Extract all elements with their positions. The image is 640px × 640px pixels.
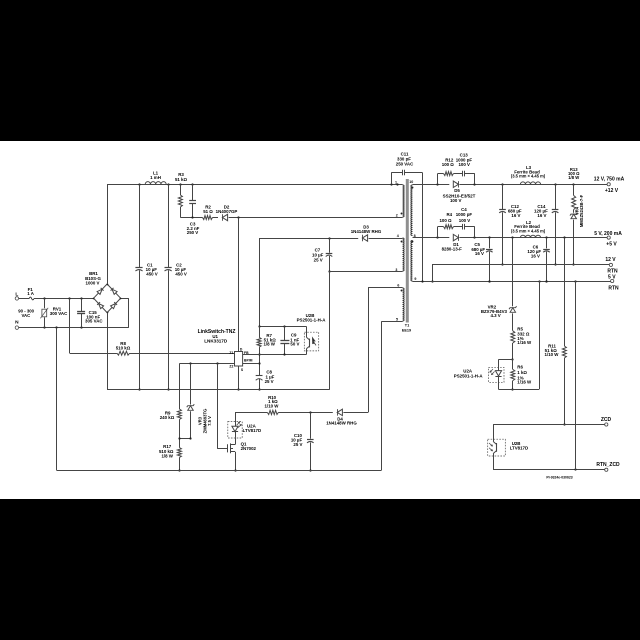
svg-text:51 kΩ: 51 kΩ (175, 177, 188, 182)
svg-text:250 V: 250 V (187, 230, 199, 235)
svg-text:R6: R6 (517, 364, 523, 369)
svg-text:ZCD: ZCD (601, 417, 612, 423)
svg-text:PS2501-1-H-A: PS2501-1-H-A (454, 374, 484, 379)
svg-text:100 Ω: 100 Ω (439, 218, 452, 223)
svg-text:VAC: VAC (22, 313, 31, 318)
svg-text:RTN: RTN (608, 286, 619, 292)
svg-text:16 V: 16 V (511, 213, 520, 218)
svg-text:100 V: 100 V (459, 218, 471, 223)
svg-text:510 kΩ: 510 kΩ (116, 346, 131, 351)
svg-text:3: 3 (395, 268, 397, 272)
svg-text:RTN: RTN (607, 268, 618, 274)
svg-text:8280-13-F: 8280-13-F (442, 246, 463, 251)
svg-text:N: N (15, 320, 19, 326)
svg-text:1 mH: 1 mH (150, 175, 161, 180)
svg-text:1000 V: 1000 V (86, 280, 100, 285)
svg-text:(3.5 mm × 4.45 m): (3.5 mm × 4.45 m) (511, 174, 546, 179)
svg-text:300 VAC: 300 VAC (50, 311, 68, 316)
svg-text:12 V, 750 mA: 12 V, 750 mA (594, 176, 625, 182)
svg-text:1/8 W: 1/8 W (161, 453, 173, 458)
svg-text:PS2501-1-H-A: PS2501-1-H-A (297, 317, 327, 322)
svg-text:1/10 W: 1/10 W (545, 352, 560, 357)
svg-text:1000 pF: 1000 pF (456, 212, 473, 217)
svg-text:4.3 V: 4.3 V (490, 313, 500, 318)
svg-text:1/16 W: 1/16 W (517, 379, 532, 384)
svg-text:Z2: Z2 (229, 364, 233, 368)
svg-text:5: 5 (396, 318, 398, 322)
svg-text:5 V, 200 mA: 5 V, 200 mA (594, 231, 622, 237)
svg-text:25 V: 25 V (293, 442, 302, 447)
svg-text:16 V: 16 V (475, 251, 484, 256)
svg-text:+12 V: +12 V (605, 188, 619, 194)
svg-text:5 V: 5 V (608, 274, 616, 280)
svg-text:RTN_ZCD: RTN_ZCD (596, 462, 620, 468)
svg-text:LTV817D: LTV817D (510, 446, 528, 451)
svg-text:100 V: 100 V (458, 162, 470, 167)
svg-text:(3.5 mm × 4.45 m): (3.5 mm × 4.45 m) (511, 228, 546, 233)
svg-text:1N4148W RHG: 1N4148W RHG (351, 229, 382, 234)
svg-text:1N4148W RHG: 1N4148W RHG (326, 421, 357, 426)
svg-text:450 V: 450 V (175, 272, 187, 277)
svg-text:4: 4 (397, 234, 399, 238)
svg-text:100 Ω: 100 Ω (442, 162, 455, 167)
svg-text:16 V: 16 V (537, 213, 546, 218)
svg-text:D5: D5 (454, 188, 460, 193)
svg-text:1/8 W: 1/8 W (263, 342, 275, 347)
svg-text:PI-9324e-030623: PI-9324e-030623 (546, 475, 572, 479)
svg-text:51 Ω: 51 Ω (203, 209, 213, 214)
svg-text:240 kΩ: 240 kΩ (160, 415, 175, 420)
svg-text:MMSZ5243B-7-F: MMSZ5243B-7-F (579, 194, 584, 227)
svg-text:+5 V: +5 V (606, 241, 617, 247)
svg-text:450 V: 450 V (146, 272, 158, 277)
svg-text:1/16 W: 1/16 W (517, 340, 532, 345)
svg-text:LTV817D: LTV817D (243, 428, 261, 433)
svg-text:25 V: 25 V (314, 257, 323, 262)
svg-text:100 V: 100 V (450, 198, 462, 203)
svg-text:6: 6 (397, 284, 399, 288)
svg-text:1/10 W: 1/10 W (265, 404, 280, 409)
svg-text:12 V: 12 V (605, 257, 616, 263)
svg-text:1N4007GP: 1N4007GP (216, 209, 238, 214)
svg-text:50 V: 50 V (290, 342, 299, 347)
svg-text:1: 1 (395, 180, 397, 184)
svg-text:16 V: 16 V (531, 253, 540, 258)
svg-text:25 V: 25 V (265, 379, 274, 384)
svg-text:2: 2 (396, 214, 398, 218)
svg-text:1 kΩ: 1 kΩ (517, 370, 527, 375)
svg-text:Z1: Z1 (229, 351, 233, 355)
svg-text:2N7002: 2N7002 (241, 446, 257, 451)
svg-text:305 VAC: 305 VAC (85, 319, 103, 324)
svg-text:1 A: 1 A (27, 291, 34, 296)
svg-text:L: L (15, 291, 18, 297)
svg-text:R4: R4 (446, 212, 452, 217)
svg-text:T1: T1 (405, 324, 409, 328)
svg-text:7.5 V: 7.5 V (207, 416, 212, 426)
svg-text:BP/M: BP/M (244, 358, 253, 362)
svg-text:EE19: EE19 (402, 328, 411, 332)
svg-text:1/8 W: 1/8 W (568, 175, 579, 180)
svg-text:250 VAC: 250 VAC (396, 162, 414, 167)
svg-text:10: 10 (409, 180, 413, 184)
svg-text:LNK3317D: LNK3317D (204, 339, 228, 344)
svg-text:9: 9 (414, 277, 416, 281)
